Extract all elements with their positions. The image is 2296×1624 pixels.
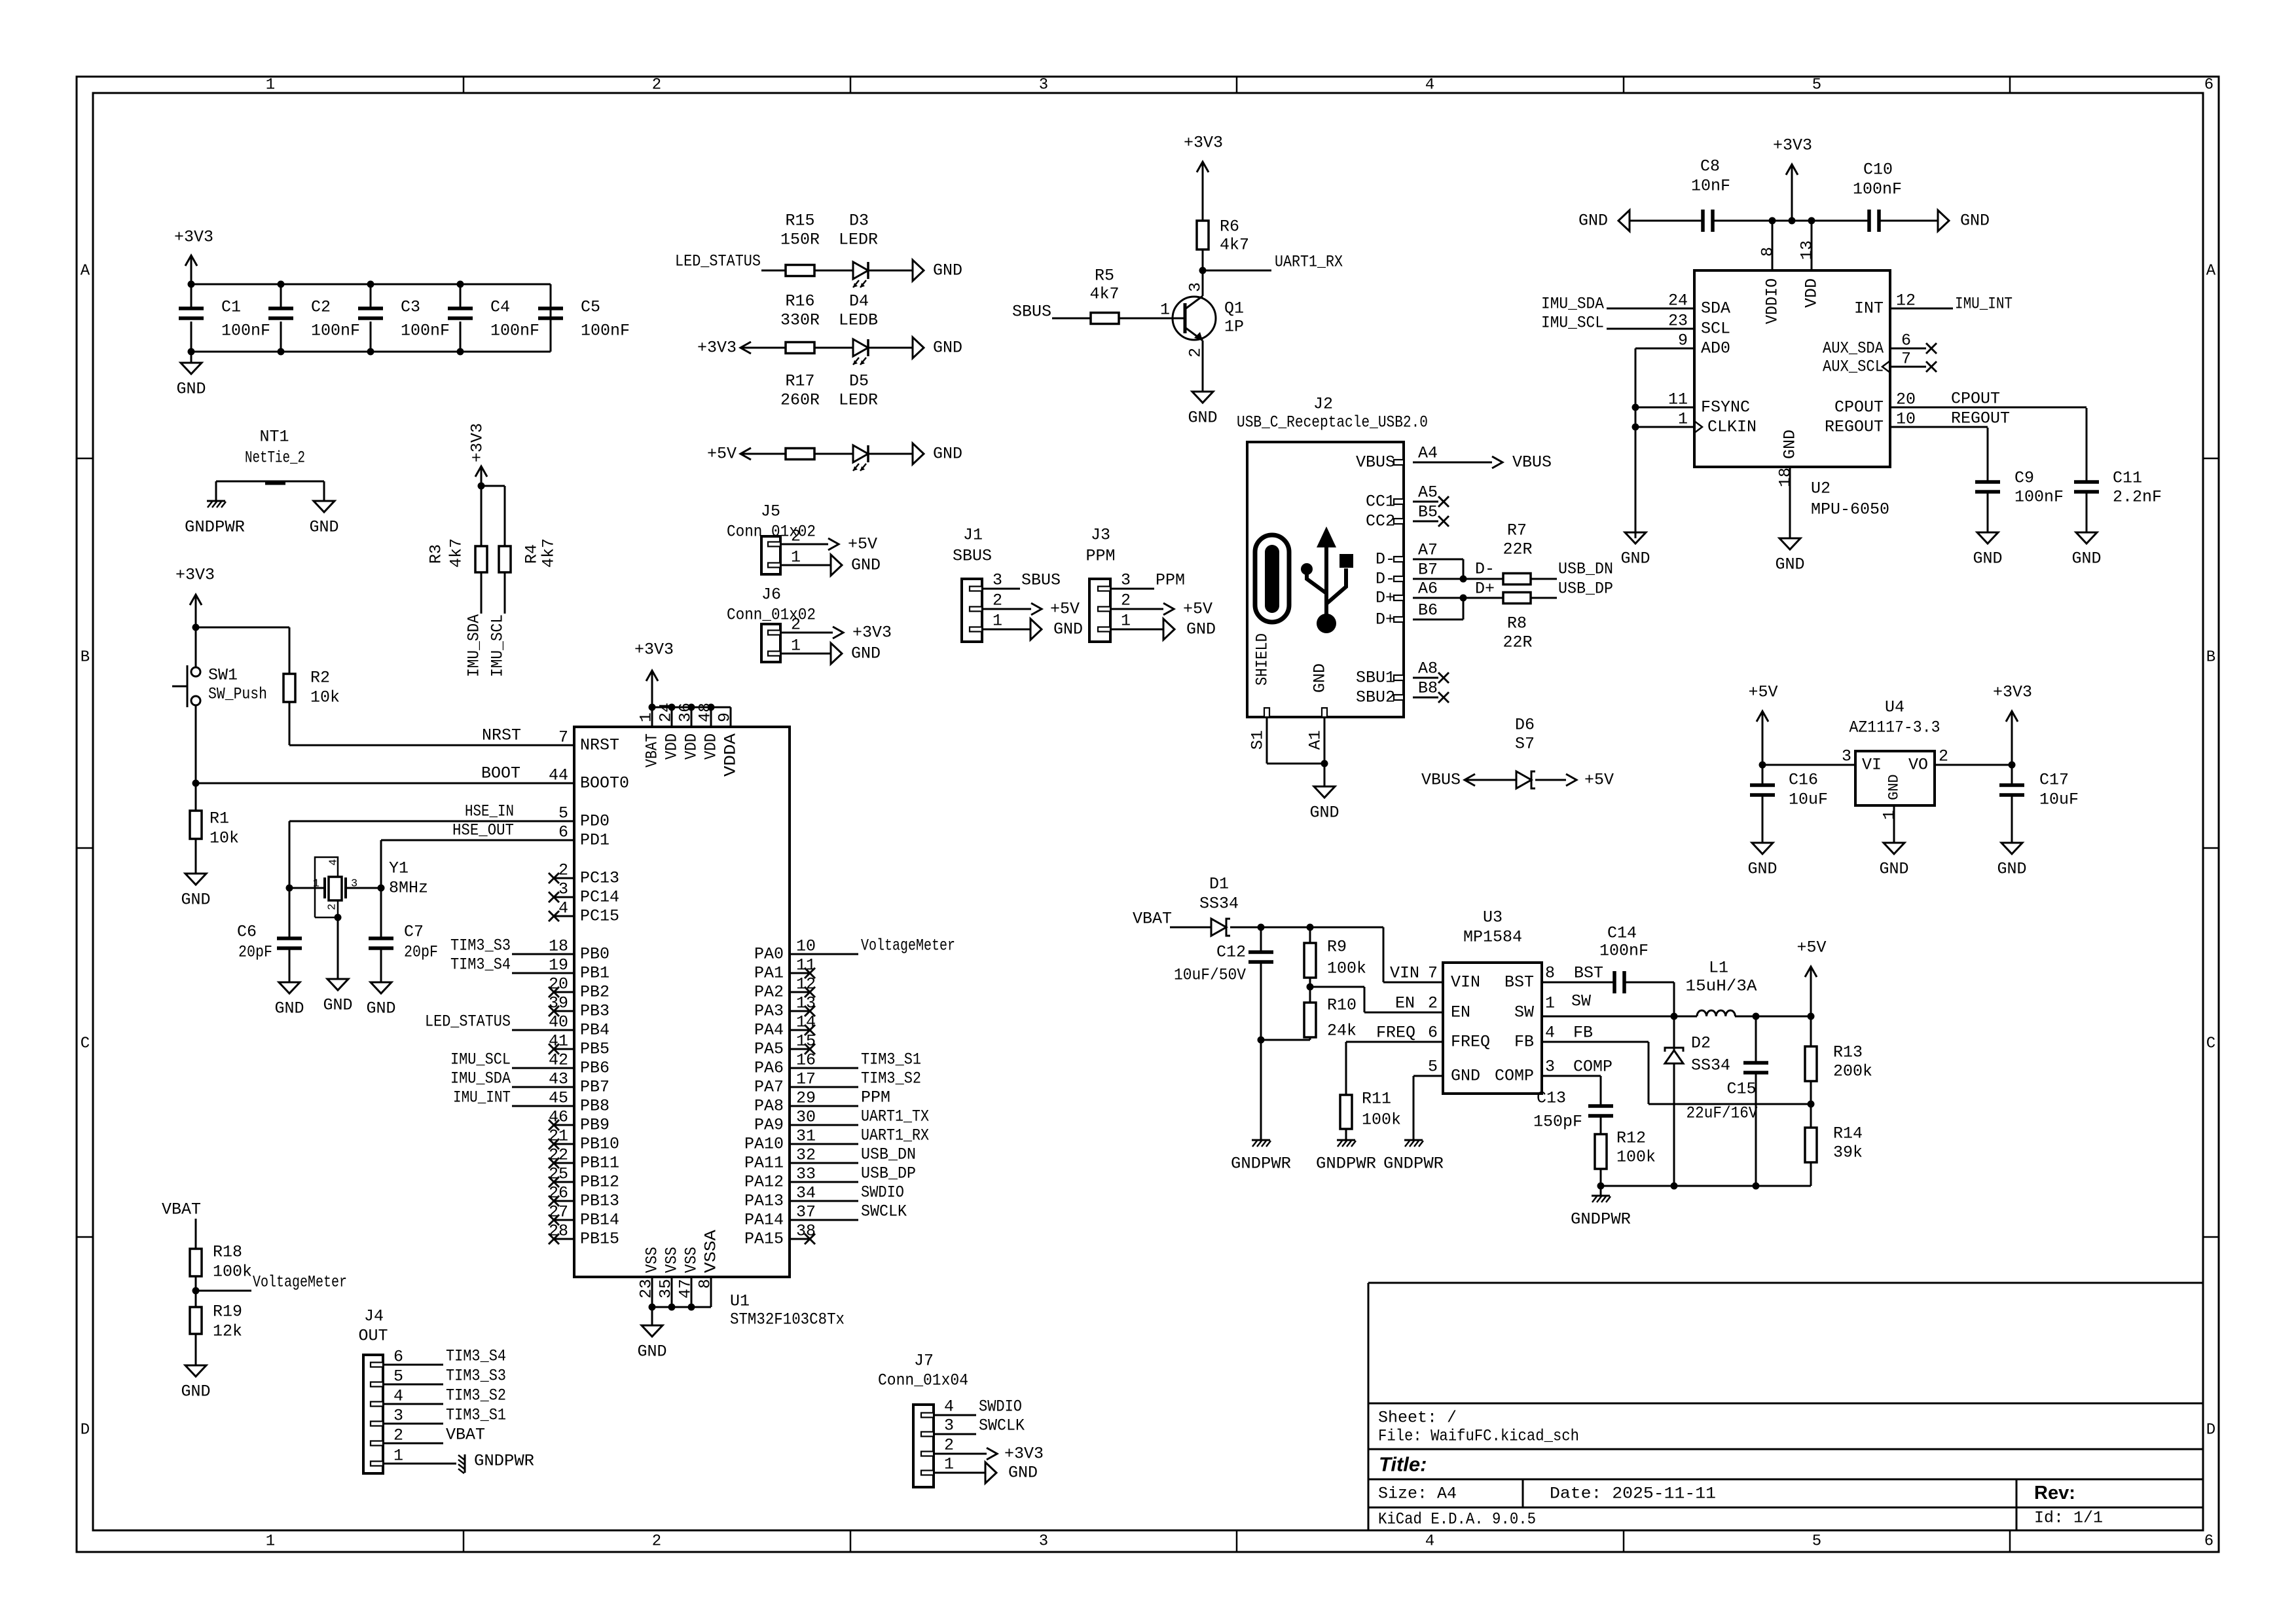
wire C8 to VDDIO node (1713, 220, 1772, 222)
svg-text:REGOUT: REGOUT (1951, 409, 2010, 428)
svg-text:1: 1 (266, 1533, 275, 1551)
svg-text:GND: GND (1973, 549, 2002, 568)
svg-text:C14: C14 (1607, 924, 1637, 943)
svg-text:LED_STATUS: LED_STATUS (675, 252, 761, 271)
svg-text:C1: C1 (221, 298, 241, 317)
svg-text:2: 2 (652, 1533, 661, 1551)
pin 38 PA15 of U1 (790, 1238, 810, 1240)
pin B5 CC2 of J2 (1394, 519, 1404, 524)
pin S1 SHIELD of J2 (1264, 708, 1269, 717)
no-connect PC15 (549, 911, 559, 921)
wire TIM3_S4 at U1 (512, 972, 554, 974)
svg-text:16: 16 (796, 1051, 816, 1070)
junction U1 bottom rail x=1026 (668, 1304, 676, 1311)
svg-text:100nF: 100nF (581, 322, 630, 341)
LED D5 LEDR (853, 445, 868, 462)
pin 7 NRST of U1 (554, 745, 574, 747)
ground GND flag at J5 (831, 555, 842, 576)
wire BST to C14 (1542, 982, 1614, 984)
resistor R15 150R (786, 265, 814, 276)
svg-text:PA8: PA8 (754, 1097, 784, 1116)
svg-text:A5: A5 (1418, 483, 1438, 502)
wire VoltageMeter net (196, 1290, 251, 1292)
svg-text:VIN: VIN (1390, 964, 1419, 983)
svg-text:2: 2 (993, 591, 1002, 610)
wire R4 top (504, 486, 506, 546)
wire AD0 to gnd column (1635, 348, 1694, 350)
wire +5V to R17 (740, 453, 786, 455)
svg-text:A7: A7 (1418, 541, 1438, 560)
svg-text:Rev:: Rev: (2034, 1483, 2075, 1504)
svg-text:IMU_SDA: IMU_SDA (450, 1069, 511, 1088)
frame column ticks bottom (463, 1530, 465, 1552)
svg-text:5: 5 (1428, 1058, 1438, 1077)
svg-text:32: 32 (796, 1146, 816, 1165)
svg-text:SCL: SCL (1701, 320, 1730, 339)
svg-text:5: 5 (558, 804, 568, 823)
no-connect AUX_SDA (1926, 343, 1937, 354)
junction R9/R10 EN node (1307, 984, 1314, 991)
junction FB node (1808, 1101, 1815, 1108)
svg-text:R17: R17 (785, 372, 814, 391)
svg-text:GND: GND (1775, 555, 1804, 574)
svg-text:VDD: VDD (1802, 278, 1821, 308)
svg-text:VBAT: VBAT (162, 1200, 201, 1219)
pin B8 SBU2 of J2 (1394, 695, 1404, 700)
svg-text:VDDA: VDDA (721, 733, 740, 777)
wire U3 GND drop (1413, 1076, 1415, 1140)
ground GND flag at J1 (1030, 619, 1042, 640)
wire REGOUT (1890, 426, 1988, 428)
svg-text:S1: S1 (1248, 730, 1267, 750)
pin 3 PC14 of U1 (554, 896, 574, 898)
wire TIM3_S3 at U1 (512, 953, 554, 955)
wire D6 to +5V (1535, 779, 1566, 781)
net tie NT1 body (265, 481, 285, 485)
wire R3/R4 branch (481, 485, 505, 487)
svg-text:3: 3 (351, 878, 357, 891)
ground GNDPWR at NT1 (207, 500, 225, 502)
svg-text:UART1_TX: UART1_TX (861, 1107, 929, 1126)
svg-text:J3: J3 (1091, 526, 1110, 545)
svg-text:S7: S7 (1515, 735, 1535, 754)
no-connect PB2 (549, 987, 559, 997)
svg-text:22uF/16V: 22uF/16V (1686, 1104, 1758, 1123)
wire J3 pin2 +5V (1110, 608, 1163, 610)
svg-text:C: C (81, 1035, 90, 1053)
svg-text:A6: A6 (1418, 580, 1438, 599)
svg-text:D3: D3 (849, 212, 869, 231)
svg-text:D4: D4 (849, 292, 869, 311)
crystal Y1 8MHz (329, 877, 342, 900)
pin A8 SBU1 of J2 (1394, 675, 1404, 680)
svg-text:GNDPWR: GNDPWR (185, 518, 245, 537)
ground GND below C7 (371, 982, 392, 993)
svg-text:PA2: PA2 (754, 983, 784, 1002)
svg-text:+5V: +5V (1748, 683, 1777, 702)
wire NT1 to GND (323, 481, 325, 501)
svg-text:COMP: COMP (1495, 1067, 1534, 1086)
wire FREQ to U3 (1346, 1041, 1443, 1043)
svg-text:VI: VI (1862, 756, 1882, 775)
svg-text:SW: SW (1571, 992, 1591, 1011)
junction R9 top (1307, 924, 1314, 931)
junction +3V3 U2 (1789, 217, 1796, 225)
wire GND rail bottom (191, 351, 551, 353)
svg-text:PPM: PPM (861, 1088, 890, 1107)
wire J7 pin1 GND (934, 1472, 985, 1474)
wire C5 right drop (550, 284, 552, 352)
frame column ticks top (463, 77, 465, 93)
resistor R4 4k7 (499, 546, 511, 572)
svg-text:+5V: +5V (848, 535, 877, 554)
pin 17 PA7 of U1 (790, 1086, 810, 1088)
svg-text:MP1584: MP1584 (1463, 928, 1522, 947)
pin 14 PA4 of U1 (790, 1029, 810, 1031)
connector J3 PPM body (1089, 579, 1110, 642)
svg-text:CLKIN: CLKIN (1707, 418, 1757, 437)
junction U1 top rail x=1026 (668, 704, 676, 711)
ground GND below C16 (1752, 843, 1773, 854)
svg-text:GNDPWR: GNDPWR (1316, 1154, 1376, 1173)
wire R2 top (289, 627, 291, 674)
pin 30 PA9 of U1 (790, 1124, 810, 1126)
wire SBU2 (1413, 697, 1438, 699)
wire J1 pin1 GND (982, 629, 1030, 631)
junction crystal case to GND (335, 914, 342, 921)
svg-text:TIM3_S2: TIM3_S2 (446, 1386, 506, 1405)
svg-text:R2: R2 (310, 669, 330, 688)
svg-text:+5V: +5V (1050, 600, 1080, 619)
svg-text:GND: GND (851, 644, 881, 663)
svg-text:Q1: Q1 (1224, 299, 1244, 318)
svg-text:100nF: 100nF (401, 322, 450, 341)
svg-text:U1: U1 (730, 1292, 750, 1311)
svg-text:8: 8 (1758, 247, 1777, 257)
wire Q1 emitter (1202, 341, 1204, 392)
no-connect CC2 (1438, 516, 1449, 526)
pin 18 PB0 of U1 (554, 953, 574, 955)
pin 4 PC15 of U1 (554, 915, 574, 917)
svg-text:VSS: VSS (643, 1247, 662, 1273)
svg-text:24: 24 (657, 703, 676, 722)
buck converter U3 MP1584 body (1443, 963, 1542, 1094)
svg-text:SBUS: SBUS (1021, 571, 1061, 590)
switch SW1 SW_Push (191, 667, 200, 676)
resistor R6 4k7 (1197, 221, 1209, 249)
svg-text:AZ1117-3.3: AZ1117-3.3 (1850, 718, 1941, 737)
capacitor C4 100nF (460, 284, 462, 308)
svg-text:A: A (81, 263, 90, 280)
power arrow +3V3 at J7 (987, 1448, 997, 1460)
pin 26 PB13 of U1 (554, 1200, 574, 1202)
svg-text:+5V: +5V (1183, 600, 1212, 619)
pin 34 PA13 of U1 (790, 1200, 810, 1202)
resistor R7 22R (1503, 574, 1531, 585)
junction gnd rail R12 (1597, 1183, 1605, 1190)
svg-text:+3V3: +3V3 (175, 566, 215, 585)
svg-text:GND: GND (1186, 620, 1216, 639)
wire SBUS to R5 (1052, 318, 1091, 320)
wire CPOUT drop to C11 (2086, 408, 2088, 482)
wire R18 bottom (195, 1276, 197, 1307)
svg-text:PD0: PD0 (580, 812, 610, 831)
wire VoltageMeter at U1 (810, 953, 858, 955)
svg-text:GNDPWR: GNDPWR (1571, 1210, 1631, 1229)
wire crystal pin1 (289, 887, 325, 889)
junction bottom rail x=566 (367, 348, 374, 356)
resistor R16 330R (786, 342, 814, 354)
svg-text:C8: C8 (1700, 157, 1720, 176)
svg-text:FB: FB (1514, 1033, 1534, 1052)
svg-text:TIM3_S2: TIM3_S2 (861, 1069, 921, 1088)
svg-text:GND: GND (1008, 1464, 1038, 1483)
svg-text:23: 23 (637, 1279, 656, 1299)
svg-text:J2: J2 (1313, 395, 1333, 414)
wire AD0 gnd column (1635, 348, 1637, 538)
svg-text:PPM: PPM (1085, 547, 1115, 566)
svg-text:TIM3_S3: TIM3_S3 (450, 936, 511, 955)
no-connect SBU2 (1438, 692, 1449, 703)
wire SW to L1 (1542, 1016, 1697, 1018)
ground GND below C17 (2001, 843, 2022, 854)
svg-text:1: 1 (993, 612, 1002, 631)
svg-text:SDA: SDA (1701, 299, 1730, 318)
svg-text:VBUS: VBUS (1421, 771, 1461, 790)
no-connect PB13 (549, 1196, 559, 1206)
wire NT1 to GNDPWR (215, 481, 217, 501)
wire J4 pin 4 (383, 1403, 443, 1405)
svg-text:PA9: PA9 (754, 1116, 784, 1135)
no-connect PB14 (549, 1215, 559, 1225)
wire D1 to VIN node (1230, 927, 1383, 929)
svg-text:GND: GND (1188, 409, 1217, 428)
svg-text:22R: 22R (1503, 540, 1532, 559)
svg-text:IMU_SDA: IMU_SDA (465, 614, 484, 677)
svg-text:+5V: +5V (1584, 771, 1614, 790)
junction D+ node (1460, 595, 1467, 602)
junction crystal pin1 (286, 885, 293, 892)
svg-text:D+: D+ (1376, 589, 1395, 608)
no-connect SBU1 (1438, 673, 1449, 683)
junction C12 bottom to R10 (1258, 1037, 1265, 1044)
wire VBUS to D6 (1465, 779, 1516, 781)
svg-text:TIM3_S3: TIM3_S3 (446, 1367, 506, 1386)
wire gnd rail to GNDPWR (1600, 1186, 1602, 1196)
svg-text:14: 14 (796, 1013, 816, 1032)
svg-text:9: 9 (1678, 331, 1688, 350)
svg-text:EN: EN (1451, 1003, 1470, 1022)
svg-text:3: 3 (944, 1416, 954, 1435)
svg-text:+5V: +5V (1796, 938, 1826, 957)
connector J5 Conn_01x02 body (761, 536, 780, 574)
svg-text:2: 2 (652, 77, 661, 94)
svg-text:A4: A4 (1418, 444, 1438, 463)
junction UART1_RX node (1199, 267, 1207, 274)
MCU U1 STM32F103C8Tx body (574, 727, 790, 1277)
wire D+ A6 to R8 (1413, 597, 1503, 599)
svg-text:C6: C6 (237, 923, 257, 942)
junction CLKIN gnd column (1632, 424, 1639, 431)
svg-text:VDD: VDD (702, 733, 721, 760)
wire C1 to GND (191, 352, 192, 363)
ground GND below U2 (1779, 538, 1800, 549)
pin 35 VSS stub bottom of U1 (671, 1277, 673, 1307)
svg-text:SW1: SW1 (208, 666, 238, 685)
wire J1 pin3 SBUS (982, 588, 1020, 590)
svg-text:7: 7 (1901, 350, 1911, 369)
svg-text:12k: 12k (213, 1322, 242, 1341)
no-connect PB12 (549, 1177, 559, 1187)
wire CC2 (1413, 521, 1438, 523)
wire U1 GND stem (651, 1307, 653, 1325)
svg-text:6: 6 (1901, 331, 1911, 350)
wire R3 top (481, 486, 483, 546)
ground GNDPWR below U3 GND (1404, 1139, 1423, 1141)
pin 11 PA1 of U1 (790, 972, 810, 974)
wire D4 to GND (868, 347, 913, 349)
wire R3 bottom to IMU_SDA (481, 572, 483, 614)
svg-text:U2: U2 (1811, 479, 1831, 498)
pin 39 PB3 of U1 (554, 1010, 574, 1012)
connector J6 Conn_01x02 body (761, 624, 780, 662)
svg-text:29: 29 (796, 1089, 816, 1108)
svg-text:R1: R1 (210, 809, 229, 828)
svg-text:Id: 1/1: Id: 1/1 (2034, 1509, 2103, 1528)
wire VBAT to R18 (195, 1219, 197, 1249)
junction U1 top rail x=1056 (688, 704, 695, 711)
svg-text:6: 6 (2204, 77, 2214, 94)
resistor R14 39k (1805, 1128, 1817, 1162)
svg-text:SW: SW (1514, 1003, 1534, 1022)
wire R2 bottom (289, 702, 291, 745)
wire U3 GND pin5 (1413, 1075, 1443, 1077)
svg-text:37: 37 (796, 1203, 816, 1222)
svg-text:PB13: PB13 (580, 1192, 619, 1211)
svg-text:+5V: +5V (707, 445, 737, 464)
svg-text:LEDR: LEDR (839, 391, 878, 410)
junction +3V3 R3/R4 (478, 483, 485, 490)
svg-text:R7: R7 (1507, 521, 1527, 540)
pin 45 PB8 of U1 (554, 1105, 574, 1107)
pin 28 PB15 of U1 (554, 1238, 574, 1240)
ground GND below crystal (327, 979, 348, 990)
svg-text:SBU2: SBU2 (1356, 688, 1395, 707)
svg-text:+3V3: +3V3 (1773, 136, 1812, 155)
svg-text:GND: GND (1578, 212, 1608, 231)
wire R8 to USB_DP (1531, 597, 1557, 599)
junction bottom rail x=429 (278, 348, 285, 356)
svg-text:R9: R9 (1327, 938, 1347, 957)
svg-text:LED_STATUS: LED_STATUS (425, 1012, 511, 1031)
svg-text:20pF: 20pF (238, 943, 272, 962)
svg-text:1: 1 (944, 1455, 954, 1474)
junction +3V3 C17 (2009, 762, 2016, 769)
wire VBAT to D1 (1170, 927, 1211, 929)
wire INT to IMU_INT (1890, 308, 1953, 310)
wire HSE_OUT down to crystal (380, 840, 382, 888)
no-connect AUX_SCL (1926, 361, 1937, 372)
svg-text:PC13: PC13 (580, 869, 619, 888)
resistor R19 12k (190, 1307, 202, 1334)
wire VDDIO-VDD rail (1772, 220, 1812, 222)
svg-text:3: 3 (1186, 282, 1205, 292)
wire VDD to C10 (1812, 220, 1869, 222)
svg-text:1: 1 (1545, 994, 1555, 1013)
wire COMP from U3 (1542, 1075, 1601, 1077)
svg-text:+3V3: +3V3 (1993, 683, 2032, 702)
svg-text:GND: GND (1451, 1067, 1480, 1086)
power arrow +5V at J5 (828, 538, 839, 550)
svg-text:PB3: PB3 (580, 1002, 610, 1021)
wire IMU_SDA to U2 (1607, 308, 1694, 310)
capacitor C7 20pF (380, 888, 382, 938)
svg-text:PB12: PB12 (580, 1173, 619, 1192)
wire CLKIN (1635, 426, 1694, 428)
wire +3V3 rail top (191, 284, 551, 286)
svg-text:KiCad E.D.A. 9.0.5: KiCad E.D.A. 9.0.5 (1378, 1510, 1536, 1529)
svg-text:4: 4 (558, 899, 568, 918)
wire D- A7 drop (1463, 559, 1465, 579)
svg-text:EN: EN (1395, 994, 1415, 1013)
pin 1 VBAT stub top of U1 (651, 707, 653, 727)
wire AUX_SCL (1890, 366, 1926, 368)
svg-text:100nF: 100nF (2014, 488, 2064, 507)
wire J4 pin 3 (383, 1423, 443, 1425)
wire Q1 collector (1202, 270, 1204, 296)
power symbol +3V3 above R3/R4 (481, 468, 483, 486)
svg-text:150pF: 150pF (1533, 1113, 1582, 1132)
svg-text:COMP: COMP (1573, 1058, 1613, 1077)
wire R17 to D5 (814, 453, 853, 455)
pin A6 D+ of J2 (1394, 595, 1404, 600)
svg-text:UART1_RX: UART1_RX (861, 1126, 929, 1145)
diode D6 S7 (1516, 771, 1531, 788)
svg-text:47: 47 (676, 1279, 695, 1299)
svg-text:SBUS: SBUS (953, 547, 992, 566)
wire C14 to SW column (1624, 982, 1674, 984)
svg-text:7: 7 (1428, 964, 1438, 983)
pin 6 PD1 of U1 (554, 840, 574, 841)
svg-text:R11: R11 (1362, 1090, 1391, 1109)
wire VBUS from J2 (1413, 462, 1492, 464)
svg-text:USB_DN: USB_DN (861, 1145, 916, 1164)
wire R16 to D4 (814, 347, 853, 349)
wire NRST net (289, 745, 574, 747)
wire UART1_RX at U1 (810, 1143, 858, 1145)
frame row ticks left (77, 458, 93, 460)
svg-text:PC14: PC14 (580, 888, 619, 907)
IMU U2 MPU-6050 body (1694, 270, 1890, 467)
pin 46 PB9 of U1 (554, 1124, 574, 1126)
svg-text:D: D (81, 1422, 90, 1439)
svg-text:CC2: CC2 (1366, 512, 1395, 531)
no-connect PA1 (805, 968, 815, 978)
svg-text:VBAT: VBAT (446, 1426, 485, 1445)
svg-text:24: 24 (1668, 291, 1688, 310)
svg-text:10k: 10k (310, 688, 340, 707)
ground GND flag at J6 (831, 643, 842, 664)
svg-text:6: 6 (1428, 1024, 1438, 1043)
pin 33 PA12 of U1 (790, 1181, 810, 1183)
ground GND flag at D5 (913, 443, 924, 464)
svg-text:4k7: 4k7 (1089, 285, 1119, 304)
svg-text:C9: C9 (2014, 469, 2034, 488)
power symbol +3V3 at Q1 (1202, 162, 1204, 221)
svg-text:100k: 100k (1327, 959, 1366, 978)
resistor R12 100k (1595, 1134, 1607, 1169)
svg-text:Sheet: /: Sheet: / (1378, 1409, 1457, 1428)
